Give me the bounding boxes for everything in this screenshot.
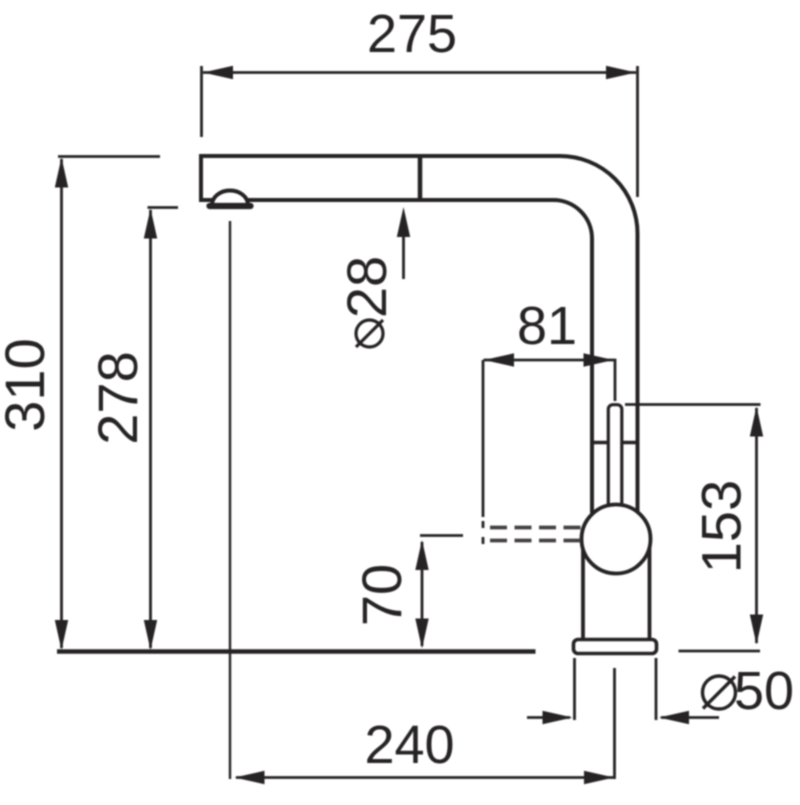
- svg-text:81: 81: [517, 296, 577, 356]
- svg-text:275: 275: [367, 4, 457, 64]
- svg-text:70: 70: [350, 564, 413, 626]
- svg-text:50: 50: [734, 661, 794, 721]
- svg-text:310: 310: [0, 338, 56, 431]
- svg-text:153: 153: [690, 480, 753, 573]
- svg-text:240: 240: [364, 715, 454, 775]
- svg-text:278: 278: [86, 351, 149, 444]
- svg-text:28: 28: [335, 256, 398, 318]
